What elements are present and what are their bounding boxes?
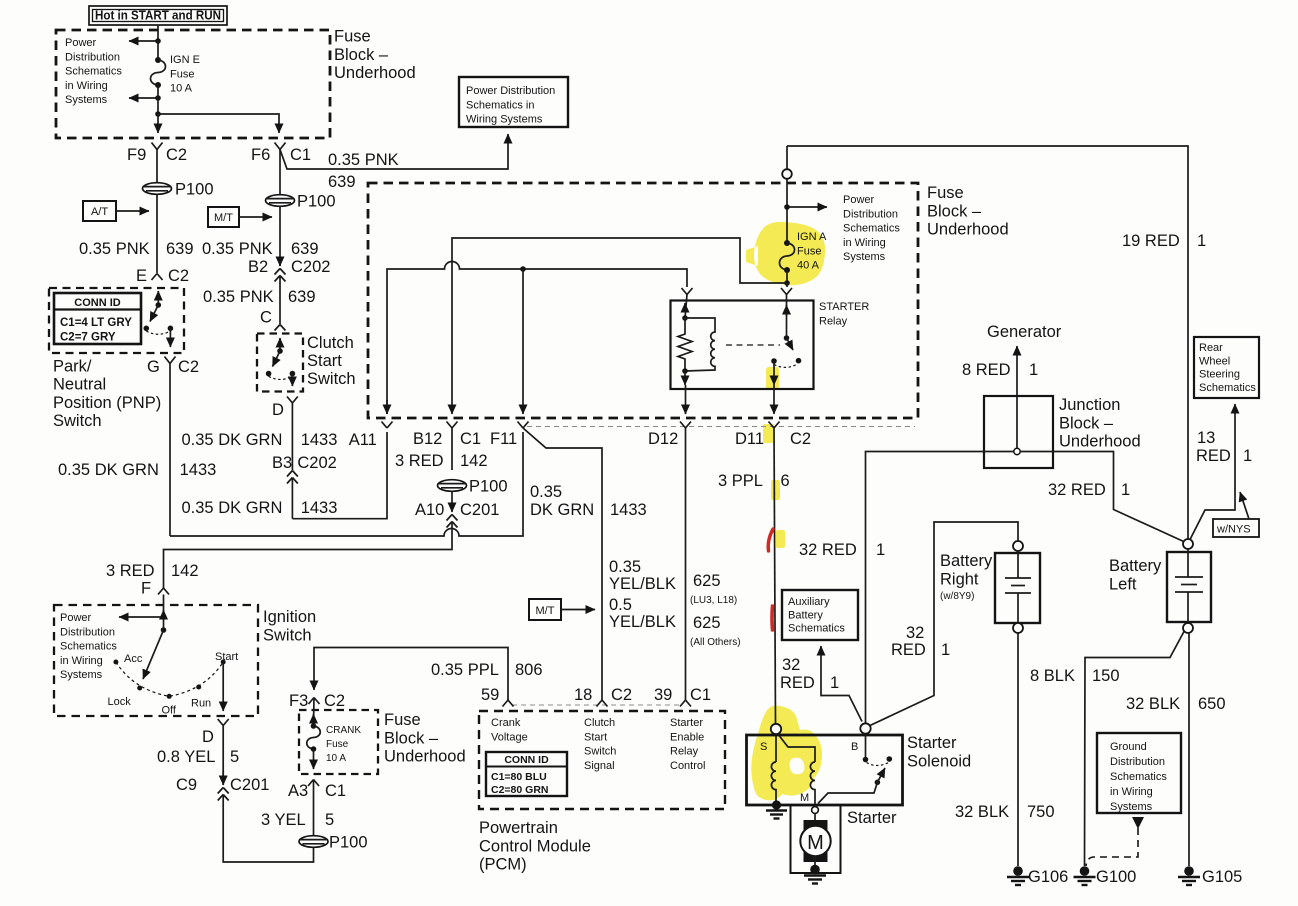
battery left negative circle [1183, 623, 1193, 633]
starter solenoid S terminal circle [771, 724, 781, 734]
wire A11 to relay coil feed (with hop and F11 tap) [387, 262, 687, 415]
label Fuse Block - Underhood (crank) [384, 711, 466, 766]
wire F3 into crank fuse [313, 698, 316, 727]
label 32 BLK 750 [955, 803, 1055, 821]
fuse block underhood (top-left) dashed box [56, 30, 330, 138]
highlight: yellow mark on 3 PPL wire [771, 480, 780, 500]
svg-text:13: 13 [1197, 429, 1215, 447]
svg-text:Ignition: Ignition [263, 608, 316, 626]
wire PCM 59 to ignition F3 [314, 648, 508, 701]
svg-text:142: 142 [460, 452, 488, 470]
note: power distribution schematics (ignition) [60, 612, 117, 681]
svg-text:Clutch: Clutch [584, 717, 615, 729]
label Battery Right (w/8Y9) [940, 552, 993, 602]
PCM dashed box [479, 711, 725, 809]
terminal label M [800, 792, 809, 804]
pin labels A11 B12 C1 F11 [413, 430, 517, 448]
solenoid pull-in coil branch wire [778, 734, 816, 763]
svg-text:B3: B3 [272, 454, 292, 472]
pin F3 / C2 labels [289, 692, 345, 710]
svg-text:32: 32 [906, 624, 924, 642]
connector chevron F11 [518, 422, 529, 429]
svg-text:Powertrain: Powertrain [479, 819, 558, 837]
connector chevron D11/C2 [769, 422, 780, 429]
svg-text:19 RED: 19 RED [1122, 232, 1180, 250]
wire F into ignition switch [163, 595, 165, 631]
node circle on battery feed [782, 146, 792, 179]
svg-text:Distribution: Distribution [65, 51, 120, 63]
wire F6/C1 down [279, 150, 281, 267]
wire D11 down to starter solenoid S (3 PPL 6 / 32 RED 1) [774, 428, 776, 724]
svg-text:32 BLK: 32 BLK [1126, 695, 1180, 713]
svg-text:Relay: Relay [670, 746, 699, 758]
svg-text:C1: C1 [325, 782, 346, 800]
svg-text:RED: RED [891, 641, 926, 659]
solenoid coil ground [766, 800, 787, 818]
label 32 RED 1 (junction to battery) [1048, 481, 1130, 499]
wire to F9 pin [157, 114, 159, 133]
svg-text:Generator: Generator [987, 323, 1062, 341]
svg-text:D12: D12 [648, 430, 678, 448]
pin A10 / C201 labels [415, 501, 499, 519]
svg-text:0.35 PNK: 0.35 PNK [79, 240, 150, 258]
wire PNP to F11 (horizontal with hop) [170, 432, 523, 536]
svg-text:Start: Start [215, 651, 238, 663]
svg-text:A/T: A/T [91, 206, 108, 218]
svg-text:Right: Right [940, 570, 979, 588]
svg-text:Switch: Switch [53, 412, 102, 430]
svg-text:1: 1 [941, 641, 950, 659]
svg-text:C2: C2 [168, 267, 189, 285]
w/NYS tag box [1213, 492, 1259, 537]
svg-text:1433: 1433 [301, 431, 338, 449]
red pen mark 2 on 32 RED wire [770, 606, 774, 630]
svg-text:Systems: Systems [60, 669, 103, 681]
solenoid hold-in coil winding [771, 762, 776, 803]
relay coil winding [685, 318, 715, 371]
connector C202 double chevron (B3) [287, 471, 298, 519]
svg-text:8 RED: 8 RED [962, 361, 1011, 379]
relay coil junction top [682, 315, 688, 321]
PNP switch arm [144, 305, 159, 331]
svg-text:A3: A3 [288, 782, 308, 800]
wire battery left to G100 (8 BLK 150) [1085, 632, 1185, 867]
label 8 RED 1 [962, 361, 1038, 379]
svg-text:Control: Control [670, 760, 705, 772]
svg-text:P100: P100 [297, 193, 336, 211]
wire label 0.35 PNK 639 (second col) [202, 240, 319, 258]
svg-text:P100: P100 [175, 181, 214, 199]
svg-text:E: E [136, 267, 147, 285]
wire fuse output junction [155, 85, 161, 117]
pin D label (ignition) [202, 728, 214, 746]
wire generator feed (arrow up) [1016, 346, 1018, 450]
junction block bus wire [866, 452, 1189, 724]
label 0.5 YEL/BLK 625 (All Others) [609, 596, 741, 648]
wire label 0.35 PNK 639 (left col) [79, 240, 194, 258]
svg-text:Power Distribution: Power Distribution [466, 85, 555, 97]
svg-text:(PCM): (PCM) [479, 856, 527, 874]
svg-text:Wiring Systems: Wiring Systems [466, 114, 543, 126]
label 3 YEL 5 [261, 811, 334, 829]
svg-text:0.35 DK GRN: 0.35 DK GRN [182, 431, 283, 449]
svg-text:Schematics: Schematics [1110, 771, 1167, 783]
svg-text:1: 1 [1243, 447, 1252, 465]
svg-text:1: 1 [1121, 481, 1130, 499]
svg-text:0.8 YEL: 0.8 YEL [157, 748, 215, 766]
svg-text:D: D [272, 401, 284, 419]
relay switch arm [787, 338, 802, 364]
svg-text:Schematics: Schematics [60, 641, 117, 653]
starter motor ground [804, 856, 826, 884]
starter motor symbol [800, 813, 830, 862]
pin D label (clutch) [272, 401, 284, 419]
wire label 0.35 PNK 639 (third) [203, 288, 316, 306]
svg-text:Starter: Starter [907, 734, 957, 752]
svg-text:Battery: Battery [788, 609, 823, 621]
svg-text:G: G [147, 358, 160, 376]
battery left node circle [1183, 539, 1193, 549]
wire A3 down (3 YEL 5) [313, 780, 315, 837]
PNP switch throw contact [146, 326, 173, 348]
svg-text:639: 639 [166, 240, 194, 258]
connector chevron D (ignition) [218, 719, 229, 726]
splice P100 (3 RED) [438, 478, 508, 496]
svg-text:B: B [851, 741, 858, 753]
svg-text:in Wiring: in Wiring [1110, 786, 1153, 798]
svg-text:Clutch: Clutch [307, 334, 354, 352]
svg-text:Schematics: Schematics [65, 66, 122, 78]
svg-text:G100: G100 [1096, 868, 1136, 886]
splice P100 (3 YEL) [299, 834, 368, 852]
connector chevron PCM 59 [503, 700, 514, 707]
svg-text:Ground: Ground [1110, 741, 1147, 753]
svg-text:G106: G106 [1028, 868, 1068, 886]
terminal label B [851, 741, 858, 753]
svg-text:A11: A11 [349, 431, 377, 449]
starter solenoid B terminal circle [860, 723, 870, 733]
svg-text:3 PPL: 3 PPL [718, 472, 763, 490]
label Clutch Start Switch [307, 334, 356, 388]
svg-text:Underhood: Underhood [1059, 433, 1141, 451]
svg-text:C1: C1 [690, 686, 711, 704]
label 13 RED 1 [1196, 429, 1252, 465]
svg-text:D: D [202, 728, 214, 746]
highlight: yellow blob over starter solenoid S coils [751, 706, 822, 801]
svg-text:1: 1 [830, 674, 839, 692]
connector chevron A11 [382, 422, 393, 429]
pin A3 / C1 labels [288, 782, 346, 800]
splice P100 (second) [266, 193, 336, 211]
ignition contact Start [215, 651, 238, 665]
label 0.35 DK GRN 1433 A11 (row 1) [182, 431, 377, 449]
svg-text:150: 150 [1092, 667, 1120, 685]
svg-text:Auxiliary: Auxiliary [788, 596, 830, 608]
svg-text:S: S [760, 741, 767, 753]
fuse CRANK 10 A [307, 723, 362, 764]
svg-text:59: 59 [481, 686, 499, 704]
svg-text:Switch: Switch [307, 370, 356, 388]
svg-text:1433: 1433 [301, 499, 338, 517]
svg-text:Battery: Battery [1109, 557, 1162, 575]
svg-text:RED: RED [780, 674, 815, 692]
svg-text:in Wiring: in Wiring [843, 237, 886, 249]
terminal label S [760, 741, 767, 753]
svg-text:32: 32 [782, 656, 800, 674]
svg-text:B2: B2 [248, 258, 268, 276]
wire B12 down (3 RED 142) [451, 428, 453, 470]
wire D down (0.8 YEL 5) [222, 726, 224, 786]
label Battery Left [1109, 557, 1162, 593]
svg-text:3 RED: 3 RED [106, 562, 155, 580]
svg-text:Rear: Rear [1199, 342, 1223, 354]
svg-text:0.35 DK GRN: 0.35 DK GRN [58, 461, 159, 479]
svg-text:Schematics: Schematics [1199, 382, 1256, 394]
junction block underhood box [984, 396, 1053, 468]
svg-text:Schematics: Schematics [788, 623, 845, 635]
connector chevron relay coil top [682, 288, 693, 295]
dashed pointer from ground distribution to G100 [1086, 817, 1144, 866]
svg-text:C2: C2 [790, 430, 811, 448]
svg-text:0.35 PNK: 0.35 PNK [203, 288, 274, 306]
label 3 RED 142 (ignition) [106, 562, 199, 580]
wire relay switch feed from fuse [786, 283, 788, 287]
svg-text:Junction: Junction [1059, 396, 1120, 414]
A/T tag box [83, 201, 149, 221]
solenoid contact B post [863, 734, 869, 763]
wire to auxiliary battery schematics (32 RED 1) [821, 646, 862, 722]
junction block node circle [1014, 448, 1020, 454]
label Powertrain Control Module (PCM) [479, 819, 591, 874]
connector chevron F3/C2 [309, 698, 320, 705]
svg-text:Left: Left [1109, 575, 1137, 593]
note: Crank Voltage [491, 717, 528, 743]
svg-text:0.35: 0.35 [530, 483, 562, 501]
svg-text:8 BLK: 8 BLK [1030, 667, 1075, 685]
label 0.35 YEL/BLK 625 (LU3, L18) [609, 558, 737, 606]
wire from hot box into fuse block [157, 25, 159, 41]
svg-text:CONN ID: CONN ID [74, 297, 121, 309]
ignition contact Off [162, 694, 177, 717]
pin G / C2 labels [147, 358, 199, 376]
connector chevron relay switch top [781, 288, 792, 295]
svg-text:Fuse: Fuse [797, 245, 821, 257]
svg-text:Systems: Systems [1110, 801, 1153, 813]
pin labels D12 D11 C2 [648, 430, 811, 448]
relay switch common [784, 295, 790, 341]
relay suppression resistor [678, 318, 692, 371]
connector chevron E/C2 [152, 274, 163, 281]
wire fuse output to B12 (left loop) [452, 238, 787, 414]
connector chevron G/C2 [165, 357, 176, 364]
CONN ID table (PCM) [486, 752, 567, 796]
wire battery feed into fuse block [786, 179, 788, 243]
svg-text:C201: C201 [230, 776, 269, 794]
label 32 RED 1 (battery right) [891, 624, 950, 659]
svg-text:Schematics in: Schematics in [466, 99, 534, 111]
svg-text:C1: C1 [290, 146, 311, 164]
svg-text:0.35: 0.35 [609, 558, 641, 576]
svg-text:YEL/BLK: YEL/BLK [609, 575, 676, 593]
wire 0.35 PNK 639 from C1 to power distribution box [280, 134, 508, 169]
pin labels 59 18 C2 39 C1 [481, 686, 711, 704]
wire branch to F6 pin [158, 114, 279, 133]
svg-text:639: 639 [288, 288, 316, 306]
pin B2 / C202 labels [248, 258, 330, 276]
battery right symbol [1005, 551, 1031, 623]
connector chevron B12/C1 [447, 422, 458, 429]
svg-text:Systems: Systems [843, 251, 886, 263]
svg-text:0.35 PPL: 0.35 PPL [431, 661, 499, 679]
pin F6 / C1 labels [251, 146, 311, 164]
svg-text:Power: Power [843, 194, 875, 206]
svg-text:Wheel: Wheel [1199, 355, 1230, 367]
svg-text:1: 1 [1197, 232, 1206, 250]
junction dot F11 tap [520, 266, 526, 272]
fuse IGN E 10 A [151, 54, 200, 95]
wire hot feed to fuse IGN E [157, 41, 159, 60]
svg-text:Block –: Block – [334, 46, 389, 64]
svg-text:Underhood: Underhood [927, 221, 1009, 239]
svg-text:Starter: Starter [847, 809, 897, 827]
svg-text:Distribution: Distribution [60, 626, 115, 638]
ignition contact Acc [113, 653, 142, 665]
svg-text:1: 1 [876, 541, 885, 559]
svg-text:0.35 PNK: 0.35 PNK [202, 240, 273, 258]
svg-text:650: 650 [1198, 695, 1226, 713]
svg-text:10 A: 10 A [170, 83, 193, 95]
ignition rotor arm [143, 627, 166, 679]
connector chevron D [287, 397, 298, 404]
ignition switch dashed box [54, 605, 258, 716]
svg-text:F11: F11 [490, 430, 517, 448]
svg-text:Hot in START and RUN: Hot in START and RUN [95, 9, 221, 23]
pin E / C2 labels [136, 267, 189, 285]
svg-text:0.35 PNK: 0.35 PNK [328, 151, 399, 169]
svg-text:C1=80 BLU: C1=80 BLU [491, 771, 547, 783]
svg-text:F9: F9 [127, 146, 146, 164]
svg-text:Block –: Block – [384, 729, 439, 747]
label Ignition Switch [263, 608, 316, 644]
svg-text:Fuse: Fuse [170, 68, 194, 80]
ground G106 [1007, 866, 1068, 886]
svg-text:Off: Off [162, 705, 177, 717]
connector chevron F6/C1 [275, 143, 286, 150]
connector chevron F [158, 588, 169, 595]
svg-text:Voltage: Voltage [491, 731, 528, 743]
svg-text:Solenoid: Solenoid [907, 752, 971, 770]
svg-text:Underhood: Underhood [334, 64, 416, 82]
connector chevron PCM 39/C1 [680, 700, 691, 707]
svg-text:32 RED: 32 RED [799, 541, 857, 559]
note: Clutch Start Switch Signal [584, 717, 616, 772]
svg-text:40 A: 40 A [797, 260, 820, 272]
svg-text:CONN ID: CONN ID [504, 754, 549, 766]
park/neutral position switch dashed box [49, 288, 184, 353]
svg-text:Steering: Steering [1199, 369, 1240, 381]
svg-text:G105: G105 [1202, 868, 1242, 886]
wire C9 loop to P100 [223, 795, 313, 862]
label Generator [987, 323, 1062, 341]
svg-text:DK GRN: DK GRN [530, 501, 594, 519]
svg-text:P100: P100 [469, 478, 508, 496]
svg-text:C202: C202 [297, 454, 336, 472]
svg-text:Fuse: Fuse [326, 739, 349, 750]
svg-text:in Wiring: in Wiring [65, 80, 108, 92]
svg-text:A10: A10 [415, 501, 444, 519]
svg-text:Fuse: Fuse [384, 711, 421, 729]
starter relay box [671, 301, 814, 390]
wire relay output to D11 [773, 361, 775, 414]
pin B3 / C202 labels [272, 454, 337, 472]
note: power distribution schematics (main fuse block) [843, 194, 900, 263]
connector C201 double chevron (C9) [218, 770, 229, 801]
wire Start contact to D [222, 662, 224, 711]
wire A10 down to ignition switch F [164, 522, 453, 588]
battery right box [995, 553, 1040, 623]
svg-text:Relay: Relay [819, 315, 848, 327]
svg-text:Acc: Acc [124, 653, 143, 665]
svg-text:Power: Power [65, 37, 97, 49]
svg-text:C1=4 LT GRY: C1=4 LT GRY [60, 317, 132, 329]
note: power distribution schematics in wiring systems (top-left) [65, 37, 122, 106]
Hot in START and RUN box [89, 6, 227, 25]
battery right loop wire (32 RED 1) [870, 522, 1018, 726]
svg-text:Distribution: Distribution [1110, 756, 1165, 768]
pin C label (clutch) [260, 309, 272, 327]
arrow to power distribution (ignition) [119, 614, 166, 620]
svg-text:IGN E: IGN E [170, 54, 200, 66]
svg-text:639: 639 [291, 240, 319, 258]
svg-text:806: 806 [515, 661, 543, 679]
svg-text:w/NYS: w/NYS [1216, 524, 1251, 536]
connector chevron C [275, 325, 286, 331]
svg-text:Park/: Park/ [53, 358, 92, 376]
wire 13 RED to rear wheel steering [1188, 404, 1235, 544]
clutch switch contact (arrow up) [277, 338, 283, 354]
label 3 PPL 6 [718, 472, 790, 490]
svg-text:C202: C202 [291, 258, 330, 276]
svg-text:3 YEL: 3 YEL [261, 811, 306, 829]
svg-text:Schematics: Schematics [843, 223, 900, 235]
arrow A11 into connector [386, 400, 388, 414]
label 0.35 DK GRN 1433 (PNP wire) [58, 461, 216, 479]
pin F9 / C2 labels [127, 146, 187, 164]
svg-text:5: 5 [230, 748, 239, 766]
svg-text:C2: C2 [178, 358, 199, 376]
wire G/C2 down (0.35 DK GRN 1433) [169, 364, 171, 537]
svg-text:C2: C2 [166, 146, 187, 164]
fuse block connector face dashed line [527, 426, 915, 428]
svg-text:3 RED: 3 RED [395, 452, 444, 470]
svg-text:1: 1 [1029, 361, 1038, 379]
svg-text:(w/8Y9): (w/8Y9) [940, 591, 974, 602]
label Junction Block - Underhood [1059, 396, 1141, 451]
wire crank fuse to A3 [313, 749, 315, 769]
starter solenoid box [747, 735, 903, 805]
svg-text:STARTER: STARTER [819, 301, 869, 313]
label 0.35 DK GRN 1433 (PCM 18) [530, 483, 647, 519]
connector chevron D12 [680, 422, 691, 429]
wire F9 to PNP switch [156, 150, 158, 274]
svg-text:Starter: Starter [670, 717, 703, 729]
svg-text:Fuse: Fuse [334, 28, 371, 46]
relay switch output contact [771, 358, 797, 367]
pin F label (ignition) [141, 580, 151, 598]
svg-text:D11: D11 [735, 430, 764, 448]
auxiliary battery schematics box [782, 590, 858, 640]
ground G105 [1178, 866, 1242, 886]
